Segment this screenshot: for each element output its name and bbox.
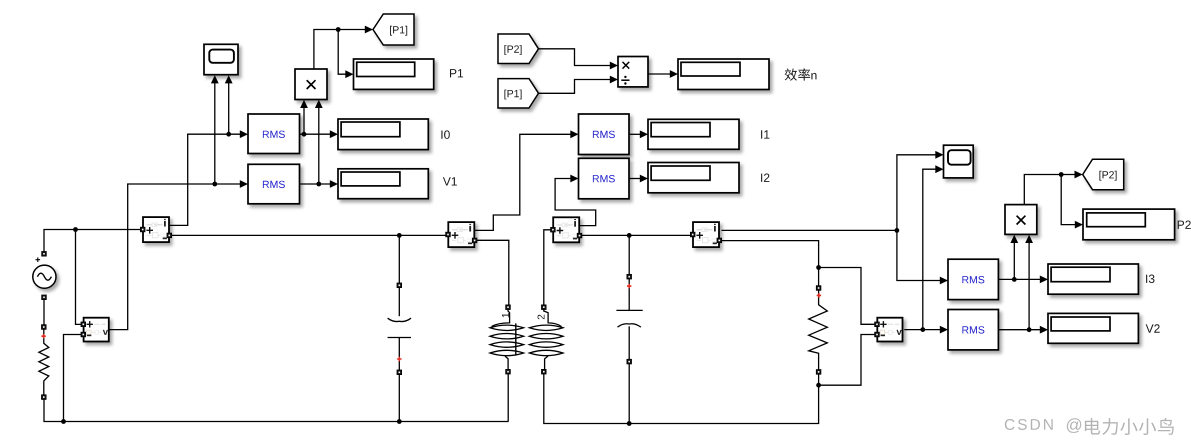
port winding 1 top — [506, 305, 511, 310]
wire RMS3 output to Display I1 — [629, 133, 641, 135]
port winding 2 bottom — [542, 369, 547, 374]
label I3 — [1146, 275, 1154, 284]
arrowhead into RMS1 — [240, 130, 248, 138]
arrowhead into Scope1 input 1 — [211, 75, 219, 83]
port resistor R1 top — [42, 325, 47, 330]
wire i-sensor I3 - to load node — [722, 241, 819, 268]
wire RMS4 output to Display I2 — [629, 178, 641, 180]
current sensor I0 measurement — [140, 217, 171, 242]
scope Scope1 — [204, 44, 238, 74]
arrowhead into Display I2 — [640, 175, 648, 183]
arrowhead into RMS3 — [570, 130, 578, 138]
arrowhead into Display I3 — [1040, 276, 1048, 284]
port capacitor C2 top — [627, 274, 632, 279]
wire i-sensor I0 output to RMS1 and Scope1 branch — [169, 82, 241, 226]
wire capacitor C1 bottom lead — [398, 374, 400, 422]
wire i-sensor I0 - to i-sensor I1 + — [169, 234, 448, 236]
port capacitor C1 top — [397, 283, 402, 288]
port resistor R1 bottom — [42, 395, 47, 400]
from tag [P2] — [498, 34, 539, 64]
wire RMS2 output to Display V1 and Product branch — [300, 107, 331, 184]
arrowhead into Divide input 1 — [610, 62, 618, 70]
port winding 2 top — [542, 305, 547, 310]
arrowhead into Product input 1 — [300, 100, 308, 108]
arrowhead into Goto [P2] — [1075, 171, 1083, 179]
wire V2 sensor + branch — [819, 268, 876, 325]
current sensor I2 measurement — [551, 217, 582, 242]
RMS block RMS4 — [579, 158, 630, 199]
goto tag [P2] — [1083, 159, 1124, 190]
wire transformer winding 1 bottom to rail — [507, 374, 509, 422]
wire bottom rail primary — [44, 400, 509, 422]
arrowhead into Display I0 — [330, 130, 338, 138]
label I0 — [441, 130, 449, 139]
voltage sensor V2 measurement — [875, 318, 903, 342]
RMS block RMS1 — [248, 114, 300, 154]
label winding 1 — [502, 313, 509, 317]
arrowhead into RMS6 — [940, 326, 948, 334]
display I0 — [338, 119, 428, 150]
arrowhead into Display V1 — [330, 180, 338, 188]
red marker R1 — [41, 334, 45, 338]
junction on I0 signal — [226, 132, 231, 137]
wire bottom rail secondary — [544, 374, 819, 424]
capacitor C2 — [616, 275, 642, 363]
red marker C1 — [397, 357, 401, 361]
label I2 — [761, 174, 769, 182]
junction capacitor C1 on bottom rail — [397, 419, 402, 424]
display V1 — [338, 169, 428, 199]
wire capacitor C1 top lead — [398, 235, 400, 283]
label V2 — [1146, 324, 1160, 332]
RMS block RMS5 — [948, 259, 998, 299]
wire From [P1] to Divide input 2 — [539, 80, 611, 94]
arrowhead into Display P1 — [345, 70, 353, 78]
AC voltage source V — [33, 257, 56, 288]
wire i-sensor I1 output to RMS3 — [474, 134, 571, 230]
RMS block RMS6 — [948, 310, 998, 350]
wire capacitor C2 top lead — [628, 235, 630, 275]
display V2 — [1048, 313, 1138, 343]
capacitor C1 — [388, 283, 411, 374]
label V1 — [443, 177, 457, 185]
display P1 — [354, 59, 434, 89]
voltage sensor V1 measurement — [81, 318, 109, 342]
divide block U2 (efficiency) — [618, 57, 648, 87]
display 效率n — [678, 59, 769, 90]
arrowhead into RMS5 — [940, 277, 948, 285]
label P2 — [1178, 221, 1191, 229]
scope Scope2 — [944, 145, 974, 178]
RMS block RMS2 — [248, 164, 300, 204]
transformer winding 1 — [490, 309, 524, 370]
arrowhead into Goto [P1] — [365, 26, 373, 34]
wire v-sensor V1 output to RMS2 and Scope1 branch — [109, 82, 241, 330]
arrowhead into Product2 input 1 — [1010, 235, 1018, 243]
display I3 — [1048, 264, 1138, 294]
port AC source + — [42, 252, 47, 257]
junction on RMS1 output — [302, 132, 307, 137]
arrowhead into Display I1 — [640, 130, 648, 138]
product block U3 (P2 multiplier) — [1005, 205, 1037, 235]
red marker C2 — [627, 284, 631, 288]
junction on RMS2 output — [316, 182, 321, 187]
transformer winding 2 — [529, 309, 563, 370]
goto tag [P1] — [373, 14, 414, 45]
wire v-sensor V2 output to RMS6 and Scope2 branch — [904, 169, 940, 329]
junction V1 - on bottom rail — [61, 419, 66, 424]
port AC source - — [42, 295, 47, 300]
port resistor R2 top — [816, 286, 821, 291]
arrowhead into Product2 input 2 — [1025, 235, 1033, 243]
wire V1 sensor + branch — [76, 230, 83, 325]
junction on RMS5 output — [1012, 277, 1017, 282]
junction on V1 signal — [212, 182, 217, 187]
wire RMS6 output to Display V2 and Product branch — [998, 242, 1040, 330]
display I2 — [648, 163, 739, 193]
label winding 2 — [538, 315, 545, 320]
wire i-sensor I1 - to transformer winding 1 — [474, 240, 509, 305]
current sensor I1 measurement — [446, 222, 477, 247]
wire i-sensor I2 output to RMS4 — [555, 179, 596, 226]
wire resistor R2 bottom lead — [818, 374, 820, 385]
product block U1 (P1 multiplier) — [295, 69, 327, 100]
label 效率n — [785, 68, 817, 80]
from tag [P1] — [498, 79, 539, 108]
watermark CSDN — [1005, 418, 1174, 435]
port capacitor C2 bottom — [627, 359, 632, 364]
wire From [P2] to Divide input 1 — [539, 49, 611, 66]
arrowhead into Divide input 2 — [610, 76, 618, 84]
arrowhead into Scope2 input 1 — [935, 151, 943, 159]
wire i-sensor I2 - to i-sensor I3 + — [579, 234, 691, 236]
wire Product2 output to Goto [P2] and Display P2 — [1024, 175, 1075, 225]
wire winding 2 top to i-sensor I2 + — [544, 230, 551, 306]
arrowhead into Scope1 input 2 — [225, 75, 233, 83]
junction on V2 signal — [920, 327, 925, 332]
wire i-sensor I3 output to Scope2 and RMS5 — [722, 155, 941, 281]
wire AC source to resistor R1 — [43, 299, 45, 325]
display P2 — [1083, 209, 1175, 240]
resistor R1 — [39, 329, 49, 395]
wire V2 sensor - branch — [819, 335, 876, 386]
wire resistor R2 top lead — [818, 268, 820, 287]
arrowhead into Product input 2 — [315, 100, 323, 108]
wire Divide output to Display — [648, 73, 671, 75]
label I1 — [761, 130, 769, 138]
wire V1 sensor - branch — [64, 335, 83, 422]
wire RMS1 output to Display I0 and Product branch — [300, 107, 331, 134]
RMS block RMS3 — [579, 114, 630, 155]
port resistor R2 bottom — [816, 370, 821, 375]
junction load top node — [816, 265, 821, 270]
wire Product output to Goto [P1] and Display P1 — [314, 30, 366, 75]
junction capacitor C1 top node — [397, 233, 402, 238]
wire capacitor C2 bottom lead — [628, 363, 630, 423]
wire top rail from AC source to i-sensor I0 — [44, 230, 143, 253]
wire RMS5 output to Display I3 and Product branch — [998, 242, 1040, 280]
resistor R2 — [809, 288, 828, 370]
port capacitor C1 bottom — [397, 370, 402, 375]
arrowhead into RMS2 — [240, 180, 248, 188]
junction on P2 signal — [1059, 172, 1064, 177]
arrowhead into Display P2 — [1075, 221, 1083, 229]
display I1 — [648, 119, 739, 149]
junction load bottom node — [816, 383, 821, 388]
junction capacitor C2 top node — [627, 233, 632, 238]
port winding 1 bottom — [506, 369, 511, 374]
arrowhead into RMS4 — [570, 175, 578, 183]
junction capacitor C2 on bottom rail — [627, 421, 632, 426]
label P1 — [450, 69, 463, 77]
red marker R2 — [817, 293, 821, 297]
junction node A on top rail — [73, 227, 78, 232]
junction on P1 signal — [336, 27, 341, 32]
junction on RMS6 output — [1027, 327, 1032, 332]
current sensor I3 measurement — [690, 222, 721, 247]
arrowhead into Scope2 input 2 — [935, 165, 943, 173]
arrowhead into Display V2 — [1040, 326, 1048, 334]
junction on I3 signal — [895, 228, 900, 233]
arrowhead into efficiency Display — [670, 70, 678, 78]
